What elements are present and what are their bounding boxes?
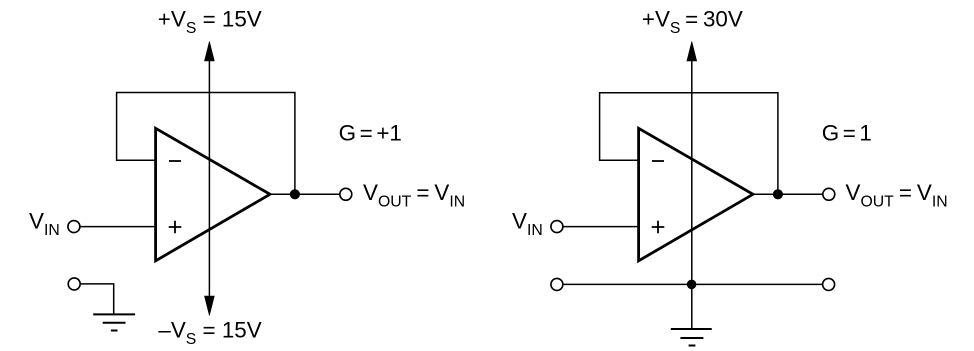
arrowhead up (+VS right) <box>687 42 697 62</box>
input terminal (left) <box>68 221 80 233</box>
ground reference terminal (left) <box>68 278 80 290</box>
arrowhead up (+VS left) <box>205 42 215 62</box>
wire: feedback loop (left) <box>117 93 295 194</box>
wire: bottom rail (right) <box>563 283 823 285</box>
plus symbol (non-inverting input U2) <box>652 221 665 234</box>
plus symbol (non-inverting input U1) <box>169 221 182 234</box>
node: rail junction dot (right) <box>687 280 697 290</box>
node: output junction dot (right) <box>773 189 783 199</box>
rail terminal left (right circuit) <box>551 278 563 290</box>
wire: input (left) <box>80 226 155 228</box>
ground (right) <box>671 329 712 346</box>
wire: ground terminal to ground (left) <box>80 284 114 314</box>
wire: +VS supply line (right, continues to ground rail) <box>691 59 693 330</box>
minus symbol (inverting input U1) <box>169 160 181 162</box>
svg-text:G = +1: G = +1 <box>339 121 402 146</box>
wire: output (right) <box>753 193 823 195</box>
minus symbol (inverting input U2) <box>652 160 664 162</box>
node: output junction dot (left) <box>290 189 300 199</box>
wire: input (right) <box>563 226 638 228</box>
output terminal (right) <box>823 188 835 200</box>
op-amp U1 <box>156 128 270 260</box>
ground (left) <box>93 314 135 330</box>
wire: output (left) <box>270 193 340 195</box>
wire: +VS/-VS supply line (left) <box>208 59 210 298</box>
op-amp U2 <box>639 128 753 260</box>
output terminal (left) <box>340 188 352 200</box>
arrowhead down (-VS left) <box>205 296 215 316</box>
svg-text:G = 1: G = 1 <box>822 121 872 146</box>
wire: feedback loop (right) <box>600 93 778 194</box>
input terminal (right) <box>551 221 563 233</box>
rail terminal right (right circuit) <box>823 278 835 290</box>
